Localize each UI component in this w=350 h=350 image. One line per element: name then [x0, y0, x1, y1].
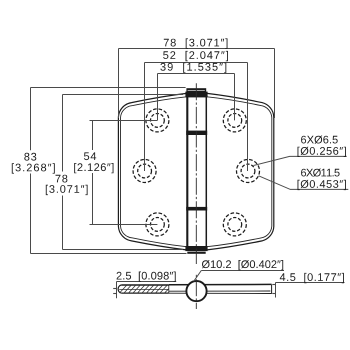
side view left leaf hatched section [118, 285, 169, 293]
label 6xD6.5 with leader [254, 156, 347, 165]
side view hatch lines [119, 285, 169, 293]
text: dim label 83 inches [12, 163, 55, 173]
hole bottom-left [146, 213, 169, 236]
knuckle band lower [186, 207, 207, 211]
text: dim label 78 top [164, 38, 228, 48]
pin cap bottom [185, 246, 207, 254]
barrel left edge [186, 97, 188, 247]
dimension 78 left [63, 95, 184, 250]
text: dim label 4.5 [280, 273, 344, 283]
text: dim label 78 left inches [46, 185, 88, 195]
hole top-left [146, 109, 169, 132]
text: dim label 78 left [56, 175, 68, 183]
side view barrel circle [186, 281, 206, 301]
hole middle-left [133, 160, 156, 183]
text: dim label thickness 2.5 [117, 272, 176, 282]
text: hole dia label 6.5 inches [298, 147, 346, 157]
text: dim label pin dia 10.2 [202, 260, 283, 270]
dimension D10.2 with leader [194, 271, 284, 282]
text: dim label 83 [24, 153, 36, 161]
dimension 2.5 bottom-left [113, 282, 176, 299]
dimension 39 top [158, 74, 235, 121]
text: dim label 54 [84, 152, 96, 160]
dimension 83 left [31, 88, 187, 254]
hole top-right [223, 109, 246, 132]
label 6xD11.5 with leader [259, 176, 349, 190]
text: hole dia label 11.5 inches [298, 180, 346, 190]
dimension 54 left [90, 121, 158, 225]
hinge leaf outline (front view, outer) [118, 93, 273, 250]
pin cap top [185, 88, 207, 97]
hole bottom-right [223, 213, 246, 236]
hole middle-right [237, 160, 260, 183]
hinge leaf outline (front view, inner offset line) [121, 97, 272, 247]
dimension 4.5 bottom-right [272, 283, 344, 298]
centerline through side-view barrel circle [195, 275, 197, 309]
knuckle band upper [186, 131, 207, 135]
barrel right edge [205, 97, 207, 247]
centerline axis (dash-dot) [195, 83, 197, 264]
text: dim label 54 inches [74, 163, 113, 173]
text: hole dia label 6.5 [301, 136, 338, 144]
side view leaf lines to the right of hatch [169, 284, 272, 293]
dimension 78 top [119, 49, 275, 119]
dimension 52 top [145, 63, 248, 172]
text: dim label 39 [160, 63, 226, 73]
text: hole dia label 11.5 [301, 169, 340, 177]
text: dim label 52 [163, 51, 228, 61]
